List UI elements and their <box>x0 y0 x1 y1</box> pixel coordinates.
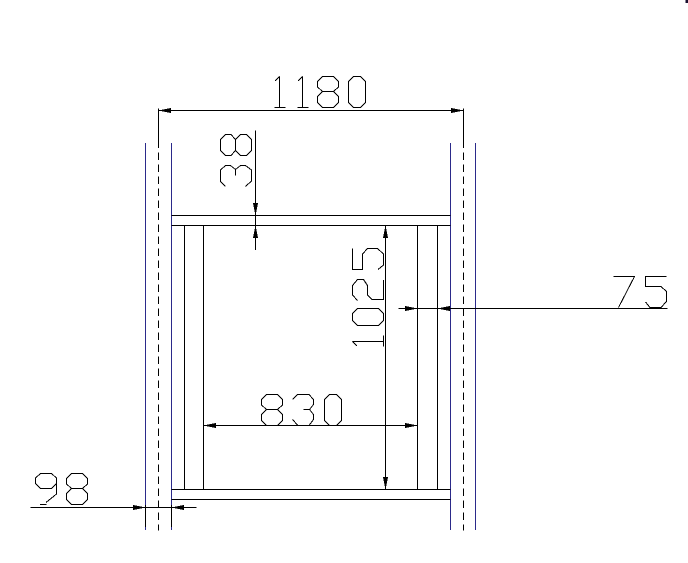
text 1180 digit 0 <box>349 77 366 108</box>
text 1180 digit 1 <box>275 77 286 108</box>
dim 98 dimension line <box>31 507 197 509</box>
dim 38 arrow lower <box>253 226 258 239</box>
text 1025 digit 2 (rotated) <box>353 280 384 301</box>
dim 830 dimension line <box>204 425 418 427</box>
pile column left line A (blue) <box>145 143 147 530</box>
left post line V1b <box>203 226 205 490</box>
centerline right (dashed) <box>463 140 465 530</box>
dim 1025 arrow bottom <box>383 477 388 490</box>
text 38 digit 3 (rotated) <box>221 166 252 187</box>
beam top chord line H1 <box>172 215 451 217</box>
text 1025 digit 1 (rotated) <box>353 336 384 347</box>
centerline left (dashed) <box>158 140 160 530</box>
text 1180 digit 8 <box>318 77 339 108</box>
dim 98 extension line right <box>171 505 173 527</box>
text 830 digit 8 <box>262 395 283 426</box>
text 75 digit 7 <box>614 277 635 308</box>
text 830 digit 3 <box>293 395 314 426</box>
dim 38 dimension line <box>255 130 257 250</box>
text 1180 digit 1 <box>298 77 309 108</box>
dim 98 arrow right <box>172 505 185 510</box>
pile column right line A (blue) <box>450 143 452 530</box>
dim 98 arrow left <box>133 505 146 510</box>
pile column left line B (blue) <box>171 143 173 530</box>
dim 830 arrow right <box>405 423 418 428</box>
dim 1180 arrow left <box>159 108 172 113</box>
text 98 digit 8 <box>67 474 88 505</box>
text 38 digit 8 (rotated) <box>221 135 252 156</box>
dim 98 extension line left <box>145 505 147 527</box>
text 1025 digit 5 (rotated) <box>353 249 384 270</box>
dim 1180 extension line left <box>158 108 160 140</box>
dim 75 arrow left <box>405 306 418 311</box>
beam bottom chord line H3 <box>172 489 451 491</box>
left post line V1a <box>184 226 186 490</box>
dim 1180 dimension line <box>159 110 464 112</box>
dim 75 leader line <box>399 308 668 310</box>
dim 830 arrow left <box>204 423 217 428</box>
dim 1180 extension line right <box>463 108 465 140</box>
dim 38 arrow upper <box>253 203 258 216</box>
text 75 digit 5 <box>646 277 667 308</box>
right post line V2b <box>437 226 439 490</box>
dim 1180 arrow right <box>451 108 464 113</box>
dim 1025 arrow top <box>383 226 388 239</box>
text 830 digit 0 <box>325 395 342 426</box>
pile column right line B (blue) <box>475 143 477 530</box>
right post line V2a <box>417 226 419 490</box>
dim 1025 dimension line <box>385 226 387 490</box>
beam bottom chord line H4 <box>172 499 451 501</box>
corner artifact dot <box>686 0 688 3</box>
beam top chord line H2 <box>172 225 451 227</box>
dim 75 arrow right <box>438 306 451 311</box>
text 1025 digit 0 (rotated) <box>353 309 384 326</box>
text 98 digit 9 <box>36 474 57 505</box>
